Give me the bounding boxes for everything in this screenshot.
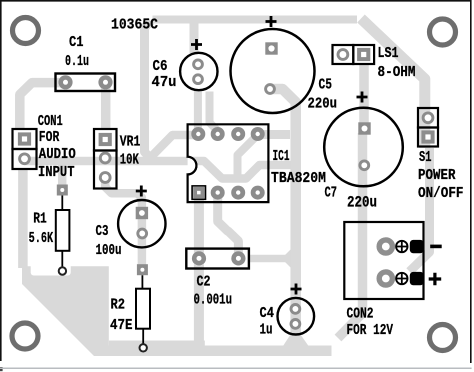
svg-text:0.001u: 0.001u xyxy=(194,293,233,309)
svg-text:10K: 10K xyxy=(120,152,139,168)
svg-text:220u: 220u xyxy=(308,96,338,112)
svg-text:0.1u: 0.1u xyxy=(65,54,89,70)
svg-text:5.6K: 5.6K xyxy=(29,231,54,247)
svg-text:C3: C3 xyxy=(96,224,109,240)
svg-text:CON1: CON1 xyxy=(38,114,63,130)
svg-text:AUDIO: AUDIO xyxy=(39,147,76,163)
svg-text:C7: C7 xyxy=(325,185,338,201)
svg-text:C6: C6 xyxy=(153,59,168,75)
svg-text:100u: 100u xyxy=(96,243,122,259)
svg-text:10365C: 10365C xyxy=(111,18,158,34)
svg-text:VR1: VR1 xyxy=(120,135,141,151)
svg-text:ON/OFF: ON/OFF xyxy=(418,186,464,202)
svg-text:R2: R2 xyxy=(111,298,126,314)
svg-text:POWER: POWER xyxy=(418,168,456,184)
svg-text:FOR 12V: FOR 12V xyxy=(347,323,394,339)
svg-text:IC1: IC1 xyxy=(273,149,290,165)
svg-text:LS1: LS1 xyxy=(378,46,399,62)
svg-text:R1: R1 xyxy=(33,212,47,228)
svg-text:8-OHM: 8-OHM xyxy=(378,65,416,81)
svg-text:C5: C5 xyxy=(319,77,333,93)
svg-text:C1: C1 xyxy=(69,35,84,51)
svg-text:CON2: CON2 xyxy=(347,306,374,322)
svg-text:INPUT: INPUT xyxy=(38,165,75,181)
svg-text:220u: 220u xyxy=(347,194,377,212)
svg-text:47u: 47u xyxy=(152,75,177,91)
svg-text:FOR: FOR xyxy=(39,130,60,146)
svg-text:C4: C4 xyxy=(260,306,275,322)
svg-text:1u: 1u xyxy=(260,323,273,339)
svg-text:TBA820M: TBA820M xyxy=(271,171,326,187)
svg-text:47E: 47E xyxy=(110,318,133,334)
svg-text:S1: S1 xyxy=(419,150,432,166)
svg-text:C2: C2 xyxy=(197,275,211,291)
